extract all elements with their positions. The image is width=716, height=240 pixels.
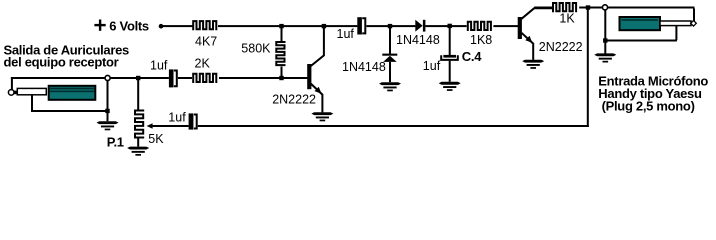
svg-text:1N4148: 1N4148 [396,33,440,47]
svg-text:P.1: P.1 [107,134,124,149]
svg-text:6 Volts: 6 Volts [109,18,149,33]
svg-text:1K8: 1K8 [470,33,492,47]
svg-text:4K7: 4K7 [195,34,217,48]
svg-text:2N2222: 2N2222 [539,40,583,54]
svg-text:1N4148: 1N4148 [342,60,386,74]
svg-text:2K: 2K [195,57,211,71]
svg-text:1uf: 1uf [168,111,186,125]
svg-text:580K: 580K [241,42,271,56]
svg-text:1uf: 1uf [423,59,441,73]
svg-text:del equipo receptor: del equipo receptor [4,54,119,69]
svg-text:C.4: C.4 [462,49,482,64]
svg-text:5K: 5K [148,132,164,146]
svg-text:2N2222: 2N2222 [272,93,316,107]
svg-text:1uf: 1uf [337,27,355,41]
svg-text:(Plug 2,5 mono): (Plug 2,5 mono) [602,99,695,114]
svg-text:1K: 1K [559,12,575,26]
svg-text:1uf: 1uf [150,59,168,73]
